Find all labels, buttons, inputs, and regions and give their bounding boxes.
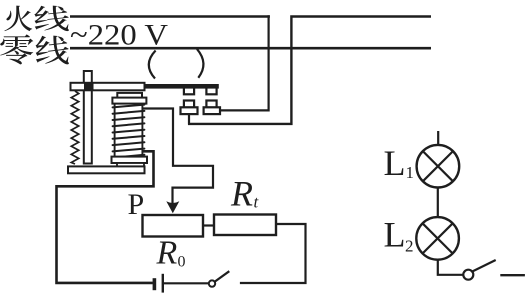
switch S2 (lamp branch, open) [463, 260, 495, 280]
wire: Rt to switch (right riser) [240, 224, 306, 283]
wire: L2 to lamp switch [438, 259, 464, 275]
upper contact right (on armature bar) [206, 88, 216, 95]
svg-text:1: 1 [406, 163, 415, 182]
wire: left lower contact drop [188, 113, 190, 125]
lamp L1 [417, 145, 460, 188]
thermistor Rt box [214, 215, 276, 236]
connector R0-Rt [203, 224, 214, 226]
svg-text:~220 V: ~220 V [70, 19, 168, 52]
wire: between lamps [437, 188, 439, 218]
svg-text:2: 2 [405, 237, 414, 256]
label 零线 (neutral wire label) [0, 34, 69, 64]
spring [71, 91, 78, 164]
lamp L2 [416, 217, 459, 260]
battery GB [153, 274, 164, 293]
svg-text:R: R [156, 234, 178, 271]
lower contact right (T post) [206, 101, 216, 108]
relay base [68, 166, 145, 173]
wire: neutral line [70, 47, 431, 50]
relay armature bar [71, 83, 145, 91]
potentiometer R0 box [143, 215, 204, 237]
relay coil windings [113, 104, 145, 158]
relay armature support pin [84, 71, 92, 164]
svg-text:L: L [384, 143, 406, 183]
wiper arrow head [166, 201, 179, 213]
wire: lamp feed line from relay contact [188, 17, 431, 124]
wire: coil to potentiometer wiper (staircase with arrow) [143, 109, 213, 205]
switch S1 (control loop, open) [209, 271, 230, 287]
armature pivot (dark) [84, 83, 94, 91]
wire: battery to switch [164, 282, 209, 284]
svg-text:R: R [230, 173, 253, 213]
lamp branch top stub [437, 131, 439, 146]
svg-text:0: 0 [178, 254, 186, 271]
answer parentheses ( ) [149, 51, 156, 79]
relay coil top cap [117, 93, 142, 98]
label 火线 (live wire label) [4, 6, 69, 32]
lower contact left (T post) [184, 101, 194, 108]
upper contact left (on armature bar) [184, 88, 194, 95]
wire: switch S2 fixed terminal [500, 274, 525, 276]
wire: coil terminal to battery loop (left side) [57, 151, 154, 283]
relay coil bottom cap [112, 157, 148, 163]
wire: live line (top) [70, 15, 270, 18]
svg-text:L: L [384, 215, 406, 255]
armature contact bar (dark) [144, 84, 219, 89]
wire: live drop to relay contact [219, 15, 269, 110]
